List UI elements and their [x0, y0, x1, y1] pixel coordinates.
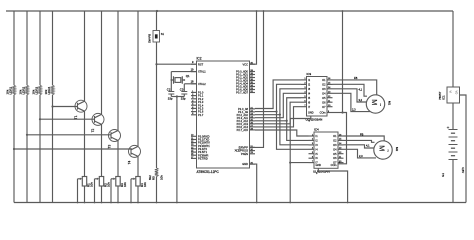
wire R1 bottom to GND: [84, 186, 86, 203]
svg-text:I4: I4: [316, 148, 319, 151]
regulator IC1 7805T: [447, 87, 460, 103]
IC2 right pin stubs and names: [250, 63, 256, 65]
svg-text:P0.7_AD7: P0.7_AD7: [236, 91, 248, 95]
transistor T3: [109, 130, 121, 142]
svg-text:O5: O5: [322, 97, 326, 100]
wire R2 bottom to GND: [101, 186, 103, 203]
LDR LDR1: [12, 85, 15, 95]
svg-text:I4: I4: [308, 92, 311, 95]
wire IC2 EA/VPP to VCC bus: [250, 11, 264, 147]
wire LDR4 to GND bus: [52, 95, 54, 203]
svg-text:T3: T3: [107, 145, 111, 149]
wire battery minus to GND bus: [452, 160, 454, 203]
svg-text:O2: O2: [322, 84, 326, 87]
svg-text:T1: T1: [74, 115, 78, 119]
wire T4 emitter to trimmer: [137, 156, 139, 176]
svg-text:T2: T2: [91, 128, 95, 132]
wire IC4 O4 to M2: [344, 149, 377, 158]
node caps gnd: [176, 95, 178, 97]
wire R2 wiper to GND: [94, 179, 96, 203]
svg-text:Q1: Q1: [186, 74, 190, 78]
svg-text:O4: O4: [333, 148, 337, 151]
wire P2.2 down to IC4 I3: [280, 115, 309, 145]
svg-text:I7: I7: [308, 106, 311, 109]
wire caps to GND bus: [176, 97, 178, 203]
LDR LDR2: [25, 85, 28, 95]
wire switch to R5: [156, 42, 158, 168]
battery G1: [449, 129, 458, 131]
svg-text:C3: C3: [180, 87, 184, 91]
svg-text:10k: 10k: [123, 182, 127, 187]
svg-text:10k: 10k: [44, 89, 48, 94]
wire XTAL2 down to C3: [183, 84, 185, 92]
svg-text:S1: S1: [161, 32, 165, 36]
trimmer R4: [136, 177, 140, 187]
wire LDR2 to GND bus: [26, 95, 28, 203]
node COM junction: [341, 111, 343, 113]
IC4 pins: [309, 135, 315, 137]
svg-text:FB: FB: [354, 76, 358, 80]
wire XTAL1: [171, 71, 196, 73]
svg-text:GND: GND: [316, 164, 322, 167]
svg-text:P2.7_A15: P2.7_A15: [237, 128, 249, 132]
wire T2 emitter to trimmer: [101, 124, 103, 176]
svg-text:2,3: 2,3: [352, 108, 356, 112]
transistor T4: [129, 145, 141, 157]
svg-text:O6: O6: [322, 101, 326, 104]
LDR LDR4: [51, 85, 54, 95]
svg-text:10k: 10k: [90, 182, 94, 187]
wire P2.5 to IC3 I6: [255, 102, 301, 124]
wire VCC to LDR4: [52, 11, 54, 85]
svg-text:10k: 10k: [6, 89, 10, 94]
svg-text:FB: FB: [360, 132, 364, 136]
svg-text:I5: I5: [316, 153, 319, 156]
wire motor +V rail: [342, 10, 344, 12]
svg-text:~: ~: [384, 149, 390, 152]
svg-text:10k: 10k: [107, 182, 111, 187]
wire IC2 GND to bus: [250, 164, 257, 202]
wire LDR1 to GND bus: [13, 95, 15, 203]
wire R3 bottom to GND: [117, 186, 119, 203]
IC3 pins: [301, 79, 307, 81]
svg-text:M2: M2: [395, 147, 399, 151]
node RST junction: [155, 63, 157, 65]
svg-text:7805T: 7805T: [438, 91, 442, 100]
wire T4 collector to VCC bus: [137, 11, 139, 146]
crystal Q1: [171, 76, 184, 84]
node P2.1 tee: [275, 110, 277, 112]
svg-text:8k2: 8k2: [148, 175, 152, 180]
wire VCC bus to COM rail: [342, 11, 344, 113]
wire tap to T1 base: [53, 106, 78, 108]
wire T3 emitter to trimmer: [117, 141, 119, 177]
svg-text:G1: G1: [441, 173, 445, 177]
wire IC3 GND jog: [290, 116, 311, 119]
svg-text:PSEN: PSEN: [241, 152, 248, 156]
wire R5 to GND bus: [156, 177, 158, 203]
svg-text:I1: I1: [316, 135, 319, 138]
wire C3 to gnd join: [183, 94, 185, 97]
svg-text:O1: O1: [333, 135, 337, 138]
wire T3 collector to VCC bus: [117, 11, 119, 131]
svg-text:XTAL2: XTAL2: [198, 82, 206, 86]
svg-text:4,8V: 4,8V: [461, 167, 465, 173]
svg-text:O3: O3: [333, 144, 337, 147]
wire P2.1 to IC3 I2: [255, 84, 301, 111]
wire tap to T4 base: [14, 148, 131, 150]
svg-text:I2: I2: [308, 84, 311, 87]
trimmer R3: [116, 177, 120, 187]
svg-text:2,3: 2,3: [359, 154, 363, 158]
node gnd rail tee: [289, 161, 291, 163]
wire LDR3 to GND bus: [39, 95, 41, 203]
svg-text:9: 9: [192, 60, 194, 64]
IC2 left pin stubs and names: [191, 63, 197, 65]
svg-text:I6: I6: [308, 101, 311, 104]
wire IC4 O2 to M2: [344, 140, 375, 142]
wire IC1 GND to bus: [460, 95, 467, 203]
wire IC3 O1 to M1: [333, 80, 377, 95]
LDR LDR3: [38, 85, 41, 95]
wire IC4 O1 to M2: [344, 136, 385, 141]
svg-text:C2: C2: [167, 87, 171, 91]
svg-text:GND: GND: [308, 112, 314, 115]
svg-text:IC3: IC3: [307, 72, 312, 76]
trimmer R2: [99, 177, 103, 187]
wire VCC to LDR3: [39, 11, 41, 85]
trimmer R1: [82, 177, 86, 187]
resistor R5: [155, 168, 158, 177]
svg-text:VO: VO: [455, 91, 459, 95]
motor M1: [366, 95, 384, 113]
wire GND rail middle: [289, 119, 291, 203]
svg-text:I1: I1: [308, 79, 311, 82]
wire VCC bus down to IC1 VO: [452, 11, 454, 87]
capacitor C3: [181, 92, 187, 95]
transistor T1: [75, 100, 87, 112]
svg-text:O3: O3: [322, 88, 326, 91]
wire IC4 COM to +V rail: [338, 113, 347, 164]
op-amp U3 : driver IC4 ULN2003AN box: [314, 132, 338, 168]
wire VCC to LDR1: [13, 11, 15, 85]
svg-text:10k: 10k: [143, 182, 147, 187]
svg-text:AT89C51-12PC: AT89C51-12PC: [197, 170, 220, 174]
svg-text:GND: GND: [242, 162, 248, 166]
op-amp U2 : driver IC3 ULN2003AN box: [307, 77, 328, 117]
wire IC3 COM: [327, 112, 343, 114]
wire tap to T2 base: [40, 118, 95, 120]
node tap T2: [39, 118, 41, 120]
op-amp U1 : microcontroller IC2 AT89C51 box: [197, 61, 250, 168]
wire T1 collector to VCC bus: [84, 11, 86, 101]
wire P2.1 down to IC4 I4: [277, 112, 309, 150]
wire P2.3 to IC3 I4: [255, 93, 301, 117]
svg-text:O4: O4: [322, 92, 326, 95]
node tap T4: [13, 148, 15, 150]
svg-text:I3: I3: [316, 144, 319, 147]
node P2.4 tee: [286, 120, 288, 122]
svg-text:COm: COm: [331, 164, 337, 167]
svg-text:O6: O6: [333, 157, 337, 160]
wire IC4 O3 to M2: [344, 145, 374, 148]
wire P2.4 down to IC4 I2: [287, 121, 309, 141]
svg-text:RST: RST: [198, 62, 204, 66]
wire tap to T3 base: [27, 134, 111, 136]
svg-text:O7: O7: [322, 106, 326, 109]
svg-text:I3: I3: [308, 88, 311, 91]
svg-text:19: 19: [191, 67, 194, 71]
svg-text:10k: 10k: [19, 89, 23, 94]
wire IC3 O3 to M1: [333, 89, 367, 102]
svg-text:18: 18: [191, 80, 194, 84]
wire IC3 O2 to M1: [333, 84, 368, 96]
svg-text:SW-PB: SW-PB: [148, 34, 152, 43]
motor M2: [374, 141, 392, 159]
svg-text:COm: COm: [320, 112, 326, 115]
svg-text:4,1: 4,1: [366, 143, 370, 147]
node P2.2 tee: [279, 114, 281, 116]
node tap T1: [51, 105, 53, 107]
wire P2.2 to IC3 I3: [255, 89, 301, 115]
wire P2.0 to IC3 I1: [255, 80, 301, 109]
wire T1 emitter to trimmer: [84, 111, 86, 176]
wire C2 to gnd join: [170, 94, 172, 97]
svg-text:XTAL1: XTAL1: [198, 70, 206, 74]
wire R4 wiper to GND: [130, 179, 132, 203]
wire IC3 O4 to M1: [333, 93, 371, 111]
wire VCC to switch S1: [156, 11, 158, 31]
transistor T2: [92, 113, 104, 125]
wire gnd rail to IC4 I7: [290, 162, 308, 164]
wire XTAL1 down to C2: [170, 72, 172, 92]
svg-text:VCC: VCC: [243, 62, 249, 66]
wire to RST pin: [157, 63, 197, 65]
svg-text:I6: I6: [316, 157, 319, 160]
svg-text:M1: M1: [388, 101, 392, 105]
wire P2.7 to IC4 I1: [255, 130, 309, 136]
svg-text:IC4: IC4: [314, 128, 319, 132]
wire caps join: [171, 96, 184, 98]
svg-text:~: ~: [377, 103, 383, 106]
wire IC2 VCC to bus: [250, 11, 257, 64]
svg-text:33p: 33p: [181, 97, 186, 101]
wire R3 wiper to GND: [110, 179, 112, 203]
svg-text:4,1: 4,1: [359, 87, 363, 91]
svg-text:VI: VI: [449, 91, 453, 94]
svg-text:10k: 10k: [159, 175, 163, 180]
svg-text:I2: I2: [316, 140, 319, 143]
svg-text:O5: O5: [333, 153, 337, 156]
wire XTAL2: [184, 83, 196, 85]
svg-text:P1.7: P1.7: [198, 113, 204, 117]
svg-text:O2: O2: [333, 140, 337, 143]
node tap T3: [26, 134, 28, 136]
capacitor C2: [168, 92, 174, 95]
svg-text:33p: 33p: [168, 97, 173, 101]
wire IC4 GND to bus: [318, 168, 347, 202]
svg-text:10k: 10k: [32, 89, 36, 94]
svg-text:T4: T4: [127, 160, 131, 164]
wire P2.4 to IC3 I5: [255, 98, 301, 121]
node switch-VCC junction: [156, 10, 158, 12]
svg-text:IC2: IC2: [197, 57, 202, 61]
wire R1 wiper to GND: [77, 179, 79, 203]
wire T2 collector to VCC bus: [101, 11, 103, 114]
wire P2.6 to IC3 I7: [255, 107, 301, 127]
switch S1: [153, 31, 160, 43]
wire VCC top bus: [6, 10, 453, 12]
svg-text:P3.7/RD: P3.7/RD: [198, 157, 208, 161]
wire R4 bottom to GND: [137, 186, 139, 203]
wire GND bottom bus: [14, 202, 466, 204]
svg-text:I5: I5: [308, 97, 311, 100]
wire VCC to LDR2: [26, 11, 28, 85]
svg-text:3,2: 3,2: [359, 98, 363, 102]
wire IC1 VI to battery: [452, 103, 454, 130]
svg-text:O1: O1: [322, 79, 326, 82]
